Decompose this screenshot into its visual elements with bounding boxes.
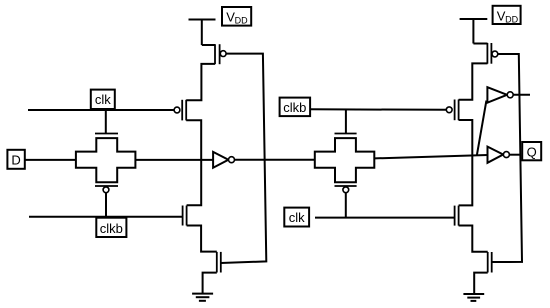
svg-text:clkb: clkb: [283, 100, 306, 115]
wire feedback net stage 1 (M1 gate - vertical - M4 gate): [221, 54, 266, 263]
wire INV2 output stub: [513, 94, 530, 96]
wire M3 source to M4 drain: [187, 226, 217, 252]
wire INV1 output to TG2: [235, 159, 315, 161]
wire feedback net stage 2 (M5 gate - vertical - M8 gate): [492, 54, 522, 262]
svg-text:D: D: [11, 152, 20, 167]
transmission gate TG2 body: [315, 138, 375, 182]
wire M2 source - node X vertical - M3 drain: [186, 120, 201, 205]
ground stage 2: [463, 294, 484, 301]
wire clk stage 2: [315, 217, 454, 219]
wire D input to TG1: [25, 159, 76, 161]
power rail VDD stage 2: [460, 19, 488, 44]
svg-text:DD: DD: [505, 14, 518, 24]
svg-text:clk: clk: [289, 210, 305, 225]
wire M4 source to ground stage 1: [203, 273, 217, 294]
label box Q: [522, 142, 541, 160]
TG2 NMOS gate bar: [335, 133, 357, 135]
TG1 NMOS gate bar: [95, 133, 118, 135]
wire TG1 PMOS gate to clkb: [105, 193, 107, 217]
wire INV3 output to Q: [509, 154, 520, 156]
wire M1 source to M2 drain: [186, 64, 215, 100]
wire clk stage 1: [28, 109, 174, 111]
transistor M6 PMOS clkb stage 2: [446, 100, 458, 121]
wire M5 source to M6 drain: [459, 63, 488, 99]
label box clk stage 1: [91, 90, 115, 109]
transistor M8 NMOS keeper pull-down stage 2: [488, 252, 492, 273]
inverter INV1: [213, 152, 234, 168]
label box clk stage 2: [284, 208, 309, 227]
label box VDD stage 2: [493, 6, 521, 25]
label box clkb stage 2: [280, 98, 311, 117]
transistor M3 NMOS clkb stage 1: [183, 206, 187, 226]
wire TG2 NMOS gate to clkb: [345, 110, 347, 134]
label box VDD stage 1: [222, 7, 251, 26]
TG2 PMOS gate bubble: [343, 187, 349, 193]
wire TG1 NMOS gate to clk: [105, 110, 107, 134]
transistor M4 NMOS keeper pull-down stage 1: [217, 252, 221, 273]
wire node Y (TG2 to INV3 input): [374, 155, 487, 158]
svg-text:clkb: clkb: [100, 221, 123, 236]
label box clkb stage 1: [96, 218, 126, 237]
wire INV2 input diagonal from node Y: [477, 101, 487, 156]
TG1 PMOS gate bubble: [103, 187, 109, 193]
TG2 PMOS gate bar: [335, 185, 357, 187]
transmission gate TG1 body: [76, 138, 135, 182]
svg-text:clk: clk: [95, 92, 111, 107]
wire clkb stage 1: [29, 216, 183, 218]
wire node X (TG1 to INV1 input): [135, 159, 213, 161]
wire clkb stage 2: [310, 108, 446, 111]
wire TG2 PMOS gate to clk: [345, 193, 347, 218]
inverter INV2 feedback: [487, 87, 513, 103]
TG1 PMOS gate bar: [95, 185, 118, 187]
transistor M5 PMOS keeper pull-up stage 2: [473, 43, 497, 64]
transistor M7 NMOS clk stage 2: [455, 206, 459, 226]
inverter INV3 output: [488, 147, 510, 163]
transistor M1 PMOS keeper pull-up stage 1: [202, 44, 226, 64]
ground stage 1: [192, 294, 213, 301]
transistor M2 PMOS clk stage 1: [174, 100, 186, 121]
svg-text:Q: Q: [527, 144, 537, 159]
wire M7 source to M8 drain: [459, 226, 488, 252]
svg-text:DD: DD: [235, 15, 248, 25]
wire M6 source - node Y vertical - M7 drain: [459, 120, 473, 205]
label box D: [7, 150, 24, 169]
power rail VDD stage 1: [189, 20, 216, 46]
wire M8 source to ground stage 2: [474, 273, 488, 294]
